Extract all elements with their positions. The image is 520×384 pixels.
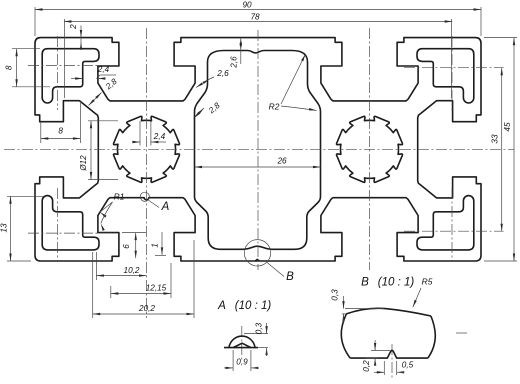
dimension 26 cavity width — [195, 166, 321, 168]
corner channel centerline BL-h — [28, 232, 118, 234]
corner channel centerline BR-v — [451, 188, 453, 262]
dimension 45 — [513, 38, 515, 261]
vertical centerline slot right — [369, 28, 371, 270]
radius R1 leader — [100, 202, 113, 212]
dimension D12 bore — [90, 121, 92, 180]
corner channel centerline TL-h — [28, 65, 118, 67]
horizontal centerline — [4, 148, 514, 150]
svg-text:2,4: 2,4 — [97, 65, 110, 74]
dimension 10,2 — [96, 275, 146, 277]
svg-text:33: 33 — [491, 134, 500, 144]
svg-text:10,2: 10,2 — [124, 266, 140, 275]
central cavity — [195, 51, 321, 250]
dimension 20,2 — [93, 313, 194, 315]
detail B radius R5 leader — [413, 288, 421, 307]
detail B notch on bottom face — [255, 259, 259, 261]
svg-text:26: 26 — [276, 157, 287, 166]
detail A dimension 0,9 — [232, 350, 234, 371]
svg-text:B: B — [286, 271, 294, 283]
dimension 2,4 top-left web — [71, 78, 83, 80]
corner channel centerline TL-v — [57, 36, 59, 110]
detail B centerline — [391, 344, 393, 378]
detail B dimension 0,3 — [345, 308, 384, 310]
dimension 1 lip — [161, 232, 163, 255]
svg-text:8: 8 — [5, 65, 14, 70]
corner channel centerline BL-v — [57, 188, 59, 262]
radius R2 leaders — [281, 54, 306, 104]
bottom-left corner screw-channel cavity — [42, 196, 99, 250]
svg-text:R2: R2 — [269, 102, 280, 112]
svg-text:2,4: 2,4 — [153, 132, 166, 141]
dimension 6 slot — [135, 233, 137, 259]
dimension 13 — [10, 196, 12, 261]
svg-text:12,15: 12,15 — [146, 284, 167, 293]
svg-text:A: A — [217, 300, 226, 312]
dimension 78 — [64, 21, 452, 23]
svg-text:0,9: 0,9 — [236, 358, 248, 367]
svg-text:0,5: 0,5 — [402, 361, 414, 370]
vertical centerline middle — [257, 30, 259, 270]
svg-text:Ø12: Ø12 — [79, 155, 88, 172]
castellated core bore left (D12) — [114, 116, 180, 182]
svg-text:6: 6 — [122, 244, 131, 249]
bottom-right corner screw-channel cavity — [417, 196, 474, 250]
svg-text:2,6: 2,6 — [216, 69, 229, 78]
svg-text:A: A — [161, 201, 170, 213]
dimension 8 left vertical — [16, 49, 18, 87]
svg-text:1: 1 — [151, 243, 160, 248]
svg-text:R5: R5 — [422, 277, 433, 287]
svg-text:78: 78 — [250, 12, 260, 21]
corner channel centerline BR-h — [404, 230, 504, 232]
svg-text:20,2: 20,2 — [138, 304, 155, 313]
dimension 8 side-slot depth — [41, 138, 81, 140]
svg-text:0,2: 0,2 — [362, 360, 371, 372]
svg-text:2,6: 2,6 — [230, 56, 239, 69]
svg-text:B: B — [361, 277, 369, 289]
dimension 90 overall width — [35, 9, 481, 11]
dimension 33 — [501, 68, 503, 232]
top-right corner screw-channel cavity — [417, 49, 474, 103]
svg-text:8: 8 — [58, 127, 63, 136]
svg-text:90: 90 — [242, 0, 252, 9]
svg-text:(10 : 1): (10 : 1) — [378, 277, 415, 289]
dimension 2,6 web — [196, 79, 210, 88]
corner channel centerline TR-h — [404, 67, 504, 69]
dimension 2,6 ceiling wall — [240, 38, 242, 64]
detail B dimension 0,5 — [383, 361, 385, 375]
top-left corner screw-channel cavity — [42, 49, 99, 103]
detail circle B — [244, 240, 270, 266]
profile outer contour with T-slots — [35, 38, 481, 261]
svg-text:2: 2 — [69, 24, 78, 30]
svg-text:0,3: 0,3 — [255, 322, 264, 334]
svg-text:13: 13 — [0, 223, 9, 233]
dimension 2 top-left lip — [80, 26, 82, 50]
detail B dimension 0,2 — [371, 350, 390, 352]
detail A bump profile — [224, 347, 258, 349]
border tick right — [456, 332, 467, 334]
corner channel centerline TR-v — [451, 36, 453, 110]
dimension 2,4 tab gap — [139, 121, 141, 146]
svg-text:0,3: 0,3 — [331, 289, 340, 301]
svg-text:45: 45 — [503, 122, 512, 132]
svg-text:R1: R1 — [114, 192, 125, 202]
detail B wall profile — [346, 308, 431, 316]
vertical centerline slot left — [146, 28, 148, 318]
detail A centerline — [241, 326, 243, 362]
detail circle A — [140, 192, 149, 201]
svg-text:(10 : 1): (10 : 1) — [235, 300, 272, 312]
dimension 2,8 left chamfer — [89, 93, 102, 106]
detail A dimension 0,3 — [244, 333, 268, 335]
castellated core bore right (D12) — [337, 116, 403, 182]
dimension 12,15 — [111, 293, 171, 295]
dimension 2,8 cavity web — [194, 108, 205, 119]
